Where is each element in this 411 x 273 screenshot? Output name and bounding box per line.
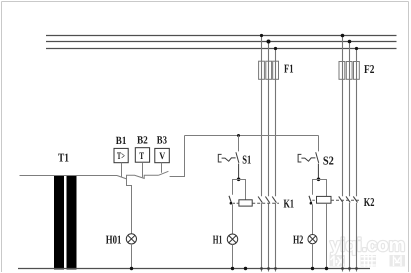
wire phase b of F1 branch xyxy=(268,42,270,272)
svg-text:F2: F2 xyxy=(364,62,374,76)
contact K1 main blade c xyxy=(272,197,276,203)
svg-text:yiqi.com: yiqi.com xyxy=(330,234,405,255)
contact K1 main blade b xyxy=(265,197,269,203)
watermark chinese character yi xyxy=(330,255,346,267)
lamp H01 xyxy=(126,234,136,244)
lamp H2 xyxy=(308,235,317,244)
transformer T1 winding bar 2 xyxy=(67,175,77,270)
border frame xyxy=(2,1,409,3)
node dot F1 phase c on L3 xyxy=(274,47,277,50)
junction blobs where phase lines cross bottom bus xyxy=(260,267,358,270)
watermark chinese character qi xyxy=(361,255,377,267)
svg-text:K2: K2 xyxy=(364,195,375,209)
mechanical linkage K2 right xyxy=(331,199,360,201)
svg-text:S1: S1 xyxy=(242,153,251,167)
wire B2 actuator lead xyxy=(142,162,144,177)
wire K2 coil return xyxy=(326,203,328,268)
wire A2 to coil K2 xyxy=(319,180,327,197)
fuse F1 xyxy=(259,61,279,79)
bus line L1 xyxy=(46,35,397,37)
control rail wire xyxy=(185,135,319,137)
svg-text:T: T xyxy=(139,151,144,162)
contact K2 main blade b xyxy=(346,196,350,202)
svg-text:H01: H01 xyxy=(106,232,122,246)
contact K1 aux blade xyxy=(229,196,232,204)
lamp H1 xyxy=(227,234,237,244)
mechanical linkage K1 left xyxy=(233,202,239,204)
wire H2 to bottom bus xyxy=(312,244,314,269)
node dot H2 on bottom bus xyxy=(311,267,314,270)
node dot A1 xyxy=(237,178,241,182)
node dot H1 on bottom bus xyxy=(231,267,234,270)
sensor B1 box xyxy=(114,148,128,162)
watermark chinese character wang xyxy=(390,255,406,267)
svg-text:T1: T1 xyxy=(58,151,69,165)
coil K1 xyxy=(239,200,252,206)
contact K2 aux blade xyxy=(309,196,312,204)
node dot K2 coil return on bottom bus xyxy=(325,267,328,270)
node dot F2 phase c on L3 xyxy=(355,47,358,50)
wire secondary top from transformer xyxy=(20,175,118,177)
node dot K1 coil return on bottom bus xyxy=(244,267,247,270)
wire B1 actuator lead xyxy=(121,163,123,177)
svg-text:K1: K1 xyxy=(284,196,295,210)
wire phase c of F1 branch xyxy=(275,49,277,272)
wire H1 to bottom bus xyxy=(232,244,234,268)
mechanical linkage K1 right xyxy=(252,202,279,204)
contact K1 main blade a xyxy=(258,197,262,203)
wire A1 to K1 aux contact xyxy=(233,180,239,195)
svg-text:H2: H2 xyxy=(293,232,303,246)
contact K2 main blade c xyxy=(353,196,357,202)
wire A2 to K2 aux contact xyxy=(313,180,319,195)
switch S1 xyxy=(218,152,239,179)
node dot F1 phase b on L2 xyxy=(267,40,271,44)
svg-text:S2: S2 xyxy=(323,153,334,167)
svg-text:F1: F1 xyxy=(284,62,294,76)
contact blade chain of B1 B2 B3 xyxy=(117,136,185,179)
wire phase c of F2 branch xyxy=(356,49,358,272)
svg-text:V: V xyxy=(159,151,166,162)
svg-text:B3: B3 xyxy=(157,135,168,147)
node dot F1 phase a on L1 xyxy=(260,34,263,37)
sensor B2 box xyxy=(135,148,149,163)
node dot K1 aux xyxy=(230,202,233,205)
node dot A2 xyxy=(317,178,321,182)
wire K2 aux to lamp H2 xyxy=(312,204,314,234)
node dot H01 on bottom bus xyxy=(130,267,133,270)
svg-text:T>: T> xyxy=(117,151,125,162)
node dot K2 aux xyxy=(310,202,313,205)
wire A1 to coil K1 xyxy=(239,180,246,200)
bus line L3 xyxy=(46,48,397,50)
wire B3 actuator lead xyxy=(161,163,163,173)
wire phase b of F2 branch xyxy=(349,42,351,272)
switch S2 xyxy=(298,152,319,179)
svg-text:H1: H1 xyxy=(213,232,223,246)
wire S1 feed xyxy=(238,136,240,152)
fuse F2 xyxy=(339,62,359,80)
wire H01 branch xyxy=(127,179,132,234)
bottom bus N xyxy=(18,268,370,270)
contact K2 main blade a xyxy=(339,196,343,202)
node dot F2 phase b on L2 xyxy=(348,40,352,44)
wire K1 aux to lamp H1 xyxy=(232,204,234,234)
transformer T1 winding bar 1 xyxy=(54,175,64,270)
mechanical linkage K2 left xyxy=(312,199,316,201)
svg-text:B2: B2 xyxy=(137,134,148,146)
wire H01 to bottom bus xyxy=(131,244,133,269)
wire phase a of F1 branch xyxy=(261,36,263,272)
svg-text:B1: B1 xyxy=(116,135,127,147)
node dot F2 phase a on L1 xyxy=(341,34,345,38)
wire phase a of F2 branch xyxy=(342,36,344,272)
sensor B3 box xyxy=(155,148,170,162)
node dot S1 tap on control rail xyxy=(237,134,240,137)
wire S2 feed xyxy=(318,136,320,152)
bus line L2 xyxy=(46,41,397,43)
coil K2 xyxy=(317,196,332,203)
